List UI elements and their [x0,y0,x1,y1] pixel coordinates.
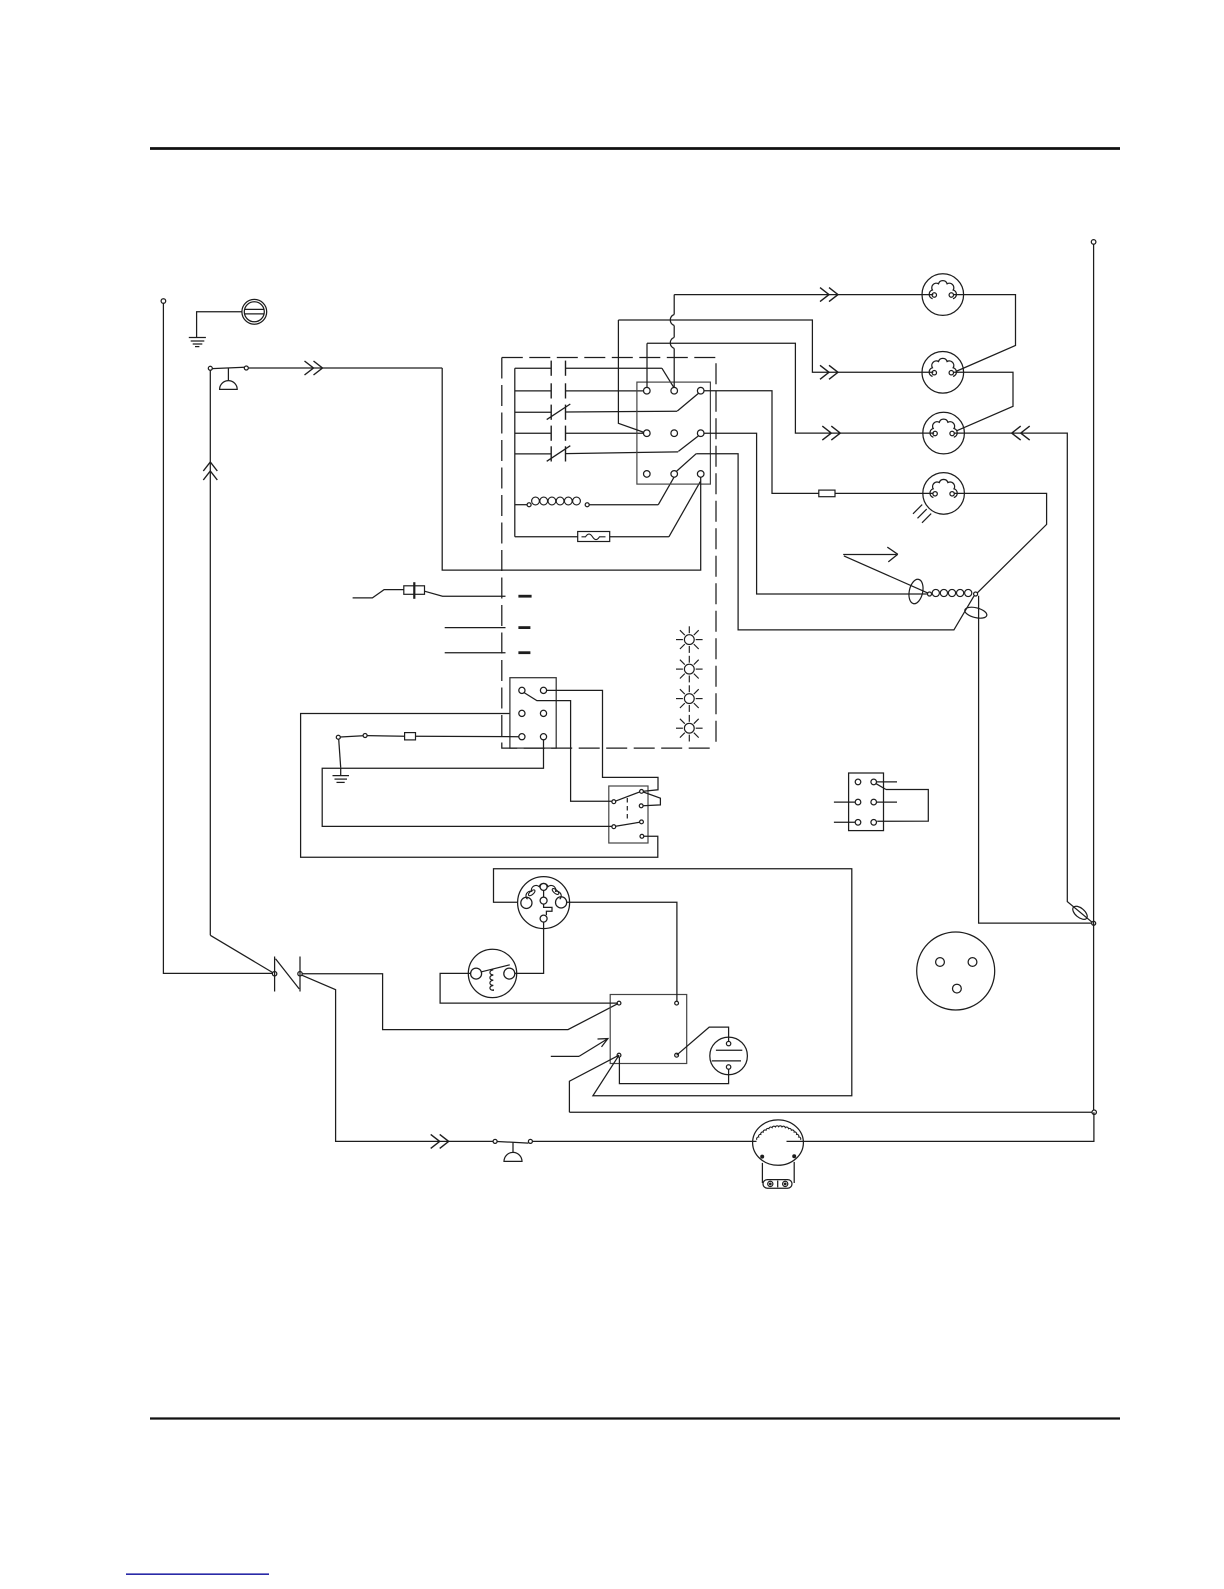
diode D1 body [405,733,416,740]
wire sender to ground [197,312,242,338]
wire BR to condenser [677,1027,729,1055]
node N3 junction [1092,921,1096,925]
module U1 box [610,995,687,1064]
switch S3 lever [340,736,363,737]
lamp DS3 [684,694,694,704]
wire BL to condenser [619,1057,728,1084]
top rule [150,147,1120,150]
footer blue link line [126,1573,269,1575]
wire plug2 feed [618,320,933,372]
spark plug connector E2 [922,352,964,394]
wire BL to harness return [569,1055,619,1112]
wire resistor to plug4 [835,492,933,494]
wire C-mid to coil secondary [696,454,974,630]
node N2 junction [1092,1110,1096,1114]
condenser C1 plates [716,1049,742,1051]
spark plug connector E3 [923,412,965,454]
dashed harness box [502,358,716,749]
starter motor body [753,1120,804,1165]
TB2 jumper [876,784,886,790]
bus vertical [514,368,516,537]
switch S2 lever [497,1142,528,1144]
relay K1 box [609,786,648,843]
wire E2 to E3 [954,372,1014,431]
wire harness return [569,1111,1092,1113]
wire left vertical feed [163,303,272,973]
contact row5 line [515,453,551,455]
key connector P2 ellipses [527,889,535,897]
wire plug3 vertical [646,343,648,387]
wire E1 to E2 [954,295,1016,372]
relay K1 blades [616,792,640,801]
contact row2 line [515,390,551,392]
breaker CB1 bars [274,957,276,992]
wire fuse to C-right [669,482,700,537]
contact row2 gap [550,383,552,398]
gauge M1 coil [490,970,493,991]
wire S1 pivot down [209,370,211,935]
grommet ellipse GE3 [1070,904,1089,922]
bottom rule [150,1417,1120,1419]
wire B-right to coil [704,433,927,594]
wire plug1 feed [674,294,933,296]
contact row3 gap [550,405,552,420]
coil L1 turns [532,497,540,505]
switch S2 plunger [512,1142,514,1152]
contact row1 line [515,367,551,369]
connector J1 box [510,678,556,748]
switch blade B [678,436,698,452]
relay K1 link [626,798,628,822]
switch S2 contacts [493,1139,497,1143]
sender G chords [245,308,264,310]
switch block pins row A [644,387,651,394]
key connector P2 body [518,877,570,929]
wire key connector to gauge [515,922,544,973]
condenser C1 body [710,1037,748,1075]
wire coil to C-mid [658,477,674,504]
TB2 stub wires [834,801,855,803]
contact row4 line [515,432,551,434]
switch S3 contacts [336,735,340,739]
grommet ellipse GE1 [907,578,925,605]
breaker CB1 contacts [272,972,276,976]
connector P3 pins [936,958,945,967]
wire S1 to harness [248,367,442,369]
wire relay R4 loop [301,714,658,858]
ground GND1 [189,337,206,339]
wire battery leads [761,1163,763,1183]
switch block pins row C [644,471,651,478]
coil L2 turns [932,589,939,596]
contact row5 gap [550,446,552,461]
spark plug connector E1 [922,274,964,316]
sender G circle [242,299,267,324]
wire plug1 vertical [673,295,675,315]
switch blade C [676,454,696,472]
wire relay hook [643,792,660,806]
module U1 pins [617,1001,621,1005]
wire CB1 to module TL [302,974,618,1030]
switch S1 plunger [227,368,229,381]
starter commutator arc [757,1126,801,1140]
lamp DS2 [684,664,694,674]
switch block pins row B [644,430,651,437]
wire BL to engine loop [494,869,852,1096]
wire J1 TR to relay top [547,690,658,791]
wire coil ground [979,596,1092,923]
wire C-right to key switch [442,368,701,570]
wire S3 to J1 BL [367,735,404,738]
wire to breaker diagonal [210,935,273,973]
contact row4 gap [550,426,552,441]
wire plug3 feed [647,343,934,433]
connector P3 body [917,932,995,1010]
stub wire ST1 [445,627,506,629]
plug E4 ground hatch [913,505,922,514]
coil L1 terminals [527,503,531,507]
coil L2 terminals [928,592,932,596]
gauge M1 needle [482,965,510,972]
wire CB1 to start motor [302,975,493,1141]
connector arrow A5 [820,365,838,379]
breaker CB1 blade [276,959,300,989]
rotor arm [844,556,928,593]
connector arrow A2 up [203,462,217,480]
wire row1 to A-mid [662,368,674,387]
node TP1 top-left [161,299,166,304]
wire A-right to plug4 [704,391,819,494]
wire J1 TL blade to relay L1 [524,693,612,802]
lamp DS1 [684,635,694,645]
connector J1 pins [519,687,525,693]
connector arrow A4 [820,288,838,302]
starter brush dots [761,1155,764,1158]
relay K1 pins [612,800,616,804]
rotor arrow AR2 [843,554,896,556]
wire gauge to module TL [440,973,617,1003]
wire J1 BR to relay L2 [322,740,612,827]
condenser C1 pins [726,1041,730,1045]
inline connector P1 [353,590,404,598]
wire E3 return [954,433,1092,922]
lamp DS4 [684,723,694,733]
fuse F1 leads [515,536,578,538]
switch block SW box [637,382,711,484]
switch S3 drop [339,739,341,767]
pointer arrow AR1 [551,1055,579,1057]
fuse F1 body [578,532,610,542]
key connector P2 pins [521,897,532,908]
key connector P2 petals [526,883,561,899]
wire right bus [1093,244,1095,1110]
key connector P2 key link [543,890,545,897]
terminal block TB2 pins [855,779,861,785]
wire starter output [787,1112,1094,1141]
switch S1 contacts [208,366,212,370]
connector arrow A1 [305,361,323,375]
wire plug2 vertical [618,320,644,432]
ground GND2 [340,768,342,775]
grommet ellipse GE2 [964,605,988,620]
connector arrow A3 [431,1134,449,1148]
terminal block TB2 box [849,773,884,831]
contact row1 gap [550,361,552,376]
switch blade A [677,393,698,411]
stub wire ST2 [445,652,506,654]
wire key connector to module TR [567,902,677,1001]
node TP2 top-right [1091,240,1096,245]
contact row3 line [515,411,551,413]
connector arrow A6 [822,426,840,440]
wire S2 to starter [533,1140,757,1142]
battery connector [763,1180,792,1189]
wire E4 to coil tower [954,493,1046,593]
gauge M1 body [468,949,516,997]
resistor R1 body [819,490,835,497]
connector arrow A7 [1012,426,1030,440]
switch S1 lever [212,367,244,368]
gauge M1 terminals [471,968,482,979]
spark plug connector E4 [923,473,965,515]
coil L1 leads [515,504,527,506]
